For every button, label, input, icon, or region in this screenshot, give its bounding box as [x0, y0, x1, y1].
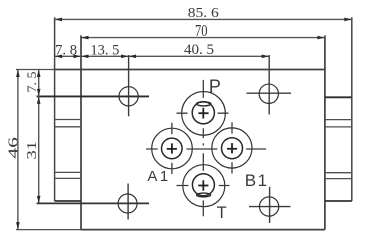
left tab bottom edge — [55, 200, 81, 202]
right tab groove line 2 — [325, 126, 352, 128]
bolt hole H1 circle — [119, 87, 138, 106]
right tab bottom edge — [325, 200, 352, 202]
port A1 inner circle — [162, 138, 183, 159]
port B1 inner circle — [222, 138, 243, 159]
svg-text:70: 70 — [195, 21, 208, 40]
body outline left edge — [80, 35, 82, 229]
arrowhead 85.6 right — [344, 18, 352, 22]
port T thread lens — [197, 193, 211, 197]
port T crosshair horizontal stubs — [177, 185, 230, 187]
arrowhead 7.8 left — [55, 55, 63, 59]
port P inner circle — [192, 102, 214, 124]
arrowhead 31 bottom — [37, 196, 41, 204]
H2 crosshair horizontal — [247, 92, 292, 94]
arrowhead 7.5 bottom — [37, 89, 41, 97]
left tab outer edge — [54, 17, 56, 201]
port A1 center mark horizontal bar — [167, 148, 177, 150]
port P center mark horizontal bar — [198, 112, 208, 114]
chain dimension line 7.8 / 13.5 / 40.5 — [55, 55, 270, 57]
right tab groove line 1 — [325, 119, 352, 121]
extension line + H1 vertical centerline — [128, 55, 130, 116]
port A1 outer circle — [152, 128, 193, 169]
arrowhead 7.5 top — [37, 70, 41, 78]
right tab outer edge — [351, 17, 353, 201]
svg-text:31: 31 — [25, 141, 40, 160]
left tab groove line 1 — [55, 119, 81, 121]
extension line for 46 bottom — [16, 229, 81, 231]
bolt hole H2 circle — [259, 84, 278, 103]
H3 vertical centerline — [127, 184, 129, 220]
dimension line 85.6 — [55, 18, 352, 20]
arrowhead 13.5 right — [121, 55, 129, 59]
svg-text:A1: A1 — [147, 168, 170, 185]
body outline top edge with left tab top — [55, 69, 325, 71]
port B1 center mark vertical bar — [231, 143, 233, 153]
arrowhead 46 top — [16, 70, 20, 78]
right tab groove line 3 — [325, 172, 352, 174]
port B1 outer circle — [212, 128, 252, 168]
port B1 center mark horizontal bar — [227, 148, 237, 150]
svg-text:P: P — [209, 76, 221, 96]
arrowhead 70 right — [317, 36, 325, 40]
right tab groove line 4 — [325, 178, 352, 180]
arrowhead 85.6 left — [55, 18, 63, 22]
H4 crosshair horizontal — [249, 206, 291, 208]
arrowhead 40.5 left — [129, 55, 137, 59]
port T center mark vertical bar — [202, 180, 204, 190]
dimension line 46 — [17, 70, 19, 230]
port P thread lens — [197, 102, 211, 106]
dimension line 7.5 / 31 — [38, 70, 40, 204]
svg-text:T: T — [217, 204, 227, 222]
port T center mark horizontal bar — [198, 185, 208, 187]
svg-text:B1: B1 — [245, 171, 269, 190]
port B1 vertical centerline stubs — [231, 122, 233, 173]
body outline bottom edge — [81, 229, 325, 231]
arrowhead 70 left — [81, 36, 89, 40]
A1/B1 horizontal centerline segments — [146, 148, 266, 150]
arrowhead 40.5 right — [262, 55, 270, 59]
extension line for 46 top (left of body top edge) — [16, 69, 55, 71]
svg-text:7. 8: 7. 8 — [55, 42, 77, 58]
port A1 vertical centerline stubs — [171, 123, 173, 174]
svg-text:7. 5: 7. 5 — [24, 72, 39, 93]
arrowhead 7.8 right — [74, 55, 82, 59]
svg-text:13. 5: 13. 5 — [90, 43, 119, 59]
arrowhead 46 bottom — [16, 222, 20, 230]
left tab groove line 4 — [55, 177, 81, 179]
bolt hole H3 circle — [118, 194, 137, 213]
body outline right edge — [324, 35, 326, 229]
bolt hole H4 circle — [259, 197, 278, 216]
left tab groove line 2 — [55, 126, 81, 128]
left tab groove line 3 — [55, 171, 81, 173]
right tab thick top edge — [325, 96, 352, 98]
port T outer circle — [183, 165, 225, 207]
svg-text:40. 5: 40. 5 — [184, 42, 214, 58]
left tab thick top line (row1 line through tab) — [37, 95, 149, 97]
H4 vertical centerline — [269, 187, 271, 223]
port P center mark vertical bar — [202, 108, 204, 119]
extension line row 2 + H3 crosshair horizontal — [37, 202, 149, 204]
port P outer circle — [182, 92, 226, 136]
port P crosshair horizontal stubs — [177, 112, 229, 114]
arrowhead 31 top — [37, 96, 41, 104]
extension line + H2 vertical centerline — [268, 55, 270, 115]
dimension line 70 — [81, 37, 325, 39]
P/T vertical centerline dashed segments — [202, 80, 204, 216]
arrowhead 13.5 left — [81, 55, 89, 59]
port T inner circle — [192, 174, 214, 196]
port A1 center mark vertical bar — [171, 143, 173, 153]
svg-text:46: 46 — [7, 137, 22, 159]
svg-text:85. 6: 85. 6 — [188, 6, 219, 21]
